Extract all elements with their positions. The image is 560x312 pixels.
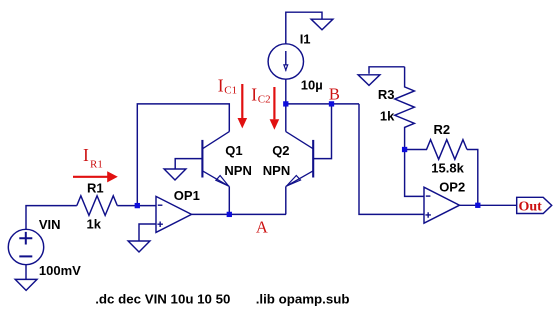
I1 arrow inside — [285, 51, 287, 65]
svg-text:I: I — [251, 85, 257, 105]
svg-text:R1: R1 — [87, 180, 104, 195]
wire R3 node down to OP2 minus input — [405, 150, 424, 197]
wire OP2 output to Out port — [460, 204, 517, 206]
Q2 base wire to node B — [313, 104, 331, 159]
svg-text:C2: C2 — [258, 94, 271, 106]
wire OP1 output to Q2 emitter (node A net) — [192, 213, 287, 215]
svg-text:Q2: Q2 — [272, 143, 289, 158]
Q2 collector diagonal — [286, 132, 313, 149]
I1 arrowhead inside circle — [284, 65, 288, 71]
port Out pentagon — [517, 197, 552, 213]
OP2 plus pin mark — [425, 212, 431, 218]
VIN minus sign — [19, 255, 32, 257]
wire feedback OP1 minus up and over to Q1 collector — [137, 104, 229, 206]
svg-text:1k: 1k — [380, 109, 395, 124]
svg-text:R1: R1 — [90, 159, 103, 171]
svg-text:OP2: OP2 — [439, 180, 465, 195]
wire OP1 plus input to ground — [139, 224, 156, 241]
resistor R3 zigzag vertical — [395, 67, 415, 150]
ground at Q1 base — [164, 169, 186, 180]
red current arrow I_C2 — [273, 87, 275, 119]
ground below OP1 plus — [128, 241, 150, 252]
OP1 minus pin mark — [158, 204, 163, 206]
resistor R2 zigzag — [405, 140, 467, 160]
junction node R3/R2 — [402, 147, 407, 152]
transistor Q1 base bar — [201, 140, 203, 178]
red current arrow I_R1 — [73, 176, 108, 178]
resistor R1 zigzag — [77, 196, 118, 216]
svg-text:B: B — [329, 85, 340, 104]
svg-text:I1: I1 — [300, 31, 311, 46]
Q1 collector diagonal — [202, 132, 229, 149]
svg-text:1k: 1k — [87, 217, 102, 232]
Q1 base wire — [175, 159, 202, 170]
junction node I1 — [283, 101, 288, 106]
VIN plus sign — [19, 232, 32, 245]
junction node OP2 output — [475, 203, 480, 208]
svg-text:Out: Out — [519, 199, 543, 214]
red current arrow I_C1 — [241, 84, 243, 118]
svg-text:.dc dec VIN 10u 10 50: .dc dec VIN 10u 10 50 — [95, 292, 230, 307]
svg-text:NPN: NPN — [263, 163, 290, 178]
Q1 emitter diagonal with arrow — [202, 171, 229, 187]
wire node I1 to node B to corner — [286, 103, 359, 105]
svg-text:A: A — [256, 217, 268, 236]
wire I1 bottom through node to Q2 collector — [285, 79, 287, 131]
OP1 plus pin mark — [157, 222, 163, 228]
svg-text:VIN: VIN — [39, 217, 61, 232]
current source I1 circle — [268, 44, 303, 79]
wire VIN bottom to ground — [25, 265, 27, 280]
svg-text:R3: R3 — [378, 87, 395, 102]
OP2 minus pin mark — [426, 195, 431, 197]
svg-text:100mV: 100mV — [39, 263, 81, 278]
wire corner down to OP2 plus input — [359, 104, 424, 214]
junction node B — [329, 101, 334, 106]
wire Q1 emitter down to node A — [228, 186, 230, 214]
svg-text:I: I — [83, 145, 89, 165]
junction node R1/OP1 — [135, 203, 140, 208]
svg-text:15.8k: 15.8k — [431, 161, 464, 176]
junction node A — [227, 212, 232, 217]
svg-text:R2: R2 — [434, 122, 451, 137]
wire R3 top to ground — [369, 67, 405, 74]
wire VIN top to R1 — [26, 206, 77, 230]
svg-text:.lib opamp.sub: .lib opamp.sub — [256, 292, 350, 307]
svg-text:NPN: NPN — [224, 163, 251, 178]
wire Q2 emitter down to A net — [285, 186, 287, 214]
wire I1 top to ground — [286, 12, 322, 44]
voltage source V1 VIN — [8, 229, 43, 264]
ground below VIN — [15, 279, 37, 290]
op-amp U OP2 triangle — [424, 187, 460, 223]
svg-text:I: I — [218, 76, 224, 96]
Q2 emitter diagonal with arrow — [286, 171, 313, 187]
transistor Q2 base bar — [312, 140, 314, 178]
wire R2 right down to OP2 output — [467, 150, 478, 206]
svg-text:C1: C1 — [224, 85, 237, 97]
svg-text:Q1: Q1 — [225, 143, 242, 158]
ground at R3 top — [358, 75, 380, 86]
op-amp U OP1 triangle — [156, 196, 192, 232]
svg-text:10µ: 10µ — [301, 78, 323, 93]
wire R1 to OP1 minus input — [117, 205, 156, 207]
svg-text:OP1: OP1 — [174, 188, 200, 203]
ground at I1 top — [311, 19, 333, 30]
